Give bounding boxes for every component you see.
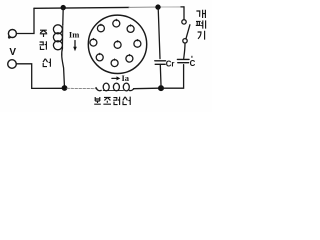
inductor L2 auxiliary winding (보조권선) — [96, 83, 134, 91]
rotor bar center — [114, 41, 121, 48]
rotor bar top-right — [127, 25, 134, 32]
svg-text:Im: Im — [69, 29, 79, 39]
svg-text:V: V — [9, 47, 16, 58]
wire top rail (faint section 2) — [161, 6, 181, 8]
label 권 (aux-winding label char 3) — [113, 97, 119, 105]
ink blob at terminal T1 — [8, 36, 11, 39]
rotor bar top-left — [97, 25, 104, 32]
wire from T2 to bottom rail — [16, 64, 66, 89]
rotor bar bottom — [111, 60, 118, 67]
node junction dot C (bottom, main winding) — [62, 85, 68, 91]
svg-text:C: C — [190, 59, 196, 68]
inductor L1 main winding (주권선) — [53, 8, 64, 86]
arrow Im (current arrow, downward) — [73, 41, 77, 52]
switch S1 (개폐기, open knife switch) — [182, 20, 190, 59]
wire bottom rail right of aux winding — [134, 87, 159, 90]
rotor bar top — [113, 20, 120, 27]
capacitor C — [177, 59, 189, 62]
rotor bar bottom-right — [126, 55, 133, 62]
label 개 (switch label char 1) — [196, 10, 205, 18]
wire bottom rail faint section — [67, 87, 97, 89]
wire top rail (solid section) — [34, 6, 129, 9]
node junction dot D (bottom, capacitor branch) — [158, 85, 164, 91]
wire top rail (right corner section) — [181, 6, 184, 8]
rotor bar ticks — [93, 19, 137, 60]
node junction dot B (capacitor branch tap) — [155, 4, 160, 9]
rotor bar right — [134, 40, 141, 47]
label 권 (main-winding label char 2) — [39, 41, 46, 49]
label 선 (aux-winding label char 4) — [123, 97, 130, 105]
wire top rail corner down to switch — [183, 7, 185, 20]
node junction dot A (main winding tap) — [61, 5, 66, 10]
wire top rail (faint section 1) — [129, 6, 156, 8]
label 기 (switch label char 3) — [198, 31, 205, 40]
label 주 (main-winding label char 1) — [40, 30, 47, 37]
label 조 (aux-winding label char 2) — [103, 97, 111, 104]
terminal T1 (upper supply terminal) — [8, 30, 16, 38]
rotor (squirrel-cage motor rotor) — [88, 15, 146, 73]
wire from dot B down to capacitor Cr — [158, 8, 160, 59]
rotor bar bottom-left — [96, 54, 103, 61]
wire from dot D to capacitor C bottom — [164, 65, 184, 89]
label 선 (main-winding label char 3) — [43, 59, 50, 67]
capacitor Cr — [155, 61, 166, 86]
terminal T2 (lower supply terminal) — [8, 60, 17, 69]
svg-text:Ia: Ia — [122, 73, 130, 83]
wire from T1 up to top rail — [17, 8, 34, 33]
label 폐 (switch label char 2) — [196, 20, 206, 28]
arrow Ia (current arrow, rightward) — [112, 76, 120, 80]
svg-text:Cr: Cr — [166, 60, 175, 69]
tick mark above label C — [191, 56, 192, 58]
label 보 (aux-winding label char 1) — [94, 97, 101, 104]
rotor bar left — [90, 39, 97, 46]
